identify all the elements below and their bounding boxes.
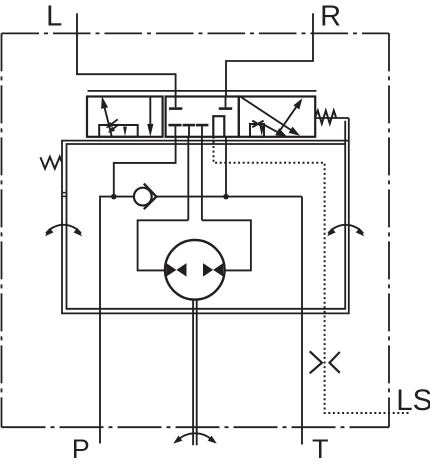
node: T junction (223, 194, 229, 200)
metering motor M1 (gerotor) (165, 240, 225, 300)
steering wheel arc (177, 433, 214, 441)
center envelope: dead-end notch (LS gallery) (213, 116, 224, 137)
feedback link rung marks (61, 193, 67, 197)
wire: gerotor right riser (201, 137, 203, 221)
centering spring right (315, 117, 349, 119)
right envelope: orifice flow arrow (slim, down) (260, 126, 264, 136)
right envelope: variable orifice block A2 (250, 124, 264, 137)
steering column (double line) (193, 300, 197, 446)
mechanical feedback box outer (62, 118, 349, 313)
steering valve U1: right envelope (239, 97, 315, 137)
check valve CV1 (114, 196, 134, 198)
left envelope: orifice flow arrow (slim, down) (123, 127, 127, 137)
rotation arrow right (arc) (328, 225, 363, 234)
center envelope: blocked bottom stub 3 (201, 126, 203, 137)
svg-text:P: P (72, 434, 90, 464)
center envelope: blocked bottom stub 1 (174, 126, 176, 137)
enclosure boundary right edge (dash-dot) (388, 33, 390, 427)
right envelope: variability cross stroke 1 (252, 121, 263, 128)
centering spring left (40, 157, 61, 169)
center envelope: blocked bottom stub 2 (188, 126, 190, 137)
svg-text:R: R (320, 1, 341, 33)
enclosure boundary bottom edge (dash-dot) (2, 426, 390, 428)
svg-text:LS: LS (396, 384, 430, 417)
wire: valve port to P gallery (114, 137, 176, 197)
wire: gerotor loop left (138, 220, 189, 270)
steering valve U1: body top line (88, 90, 317, 92)
wire: P riser (100, 197, 114, 444)
enclosure boundary top edge (dash-dot) (2, 32, 390, 34)
wire: gerotor left riser (187, 137, 189, 221)
wire: T line down (301, 197, 303, 445)
orifice on LS line (310, 351, 322, 373)
right envelope: variability cross stroke 2 (252, 121, 263, 128)
enclosure boundary left edge (dash-dot) (1, 33, 3, 427)
wire: R-side riser to valve (225, 137, 227, 197)
left envelope: variable arrow (long diagonal, head up) (104, 106, 112, 137)
right envelope: variable arrow (head upper-right) (278, 106, 298, 134)
left envelope: small variability arrow 1 (109, 119, 118, 126)
right envelope: orifice feed arrow (head lower-right) (264, 125, 279, 133)
left envelope: flow arrow down at right (149, 97, 151, 127)
center envelope: blocked port stub from R (225, 97, 227, 108)
wire: port L line (77, 13, 176, 96)
center envelope: blocked port stub from L (175, 97, 177, 108)
left envelope: variable orifice block A1 (99, 125, 138, 137)
rotation arrow left (arc) (46, 225, 81, 234)
right envelope: crossed flow arrow (head lower-right) (241, 97, 291, 130)
wire: check valve to T gallery (156, 196, 302, 198)
wire: gerotor loop right (202, 220, 251, 270)
LS pilot line (dotted) (214, 137, 410, 413)
steering valve U1: center envelope (166, 97, 239, 137)
wire: port R line (226, 13, 313, 96)
node: P junction (111, 194, 117, 200)
mechanical feedback box inner (67, 121, 346, 309)
steering valve U1: left envelope (87, 97, 163, 137)
svg-text:T: T (312, 434, 329, 464)
svg-text:L: L (46, 1, 62, 33)
left envelope: small variability arrow 2 (111, 124, 119, 131)
